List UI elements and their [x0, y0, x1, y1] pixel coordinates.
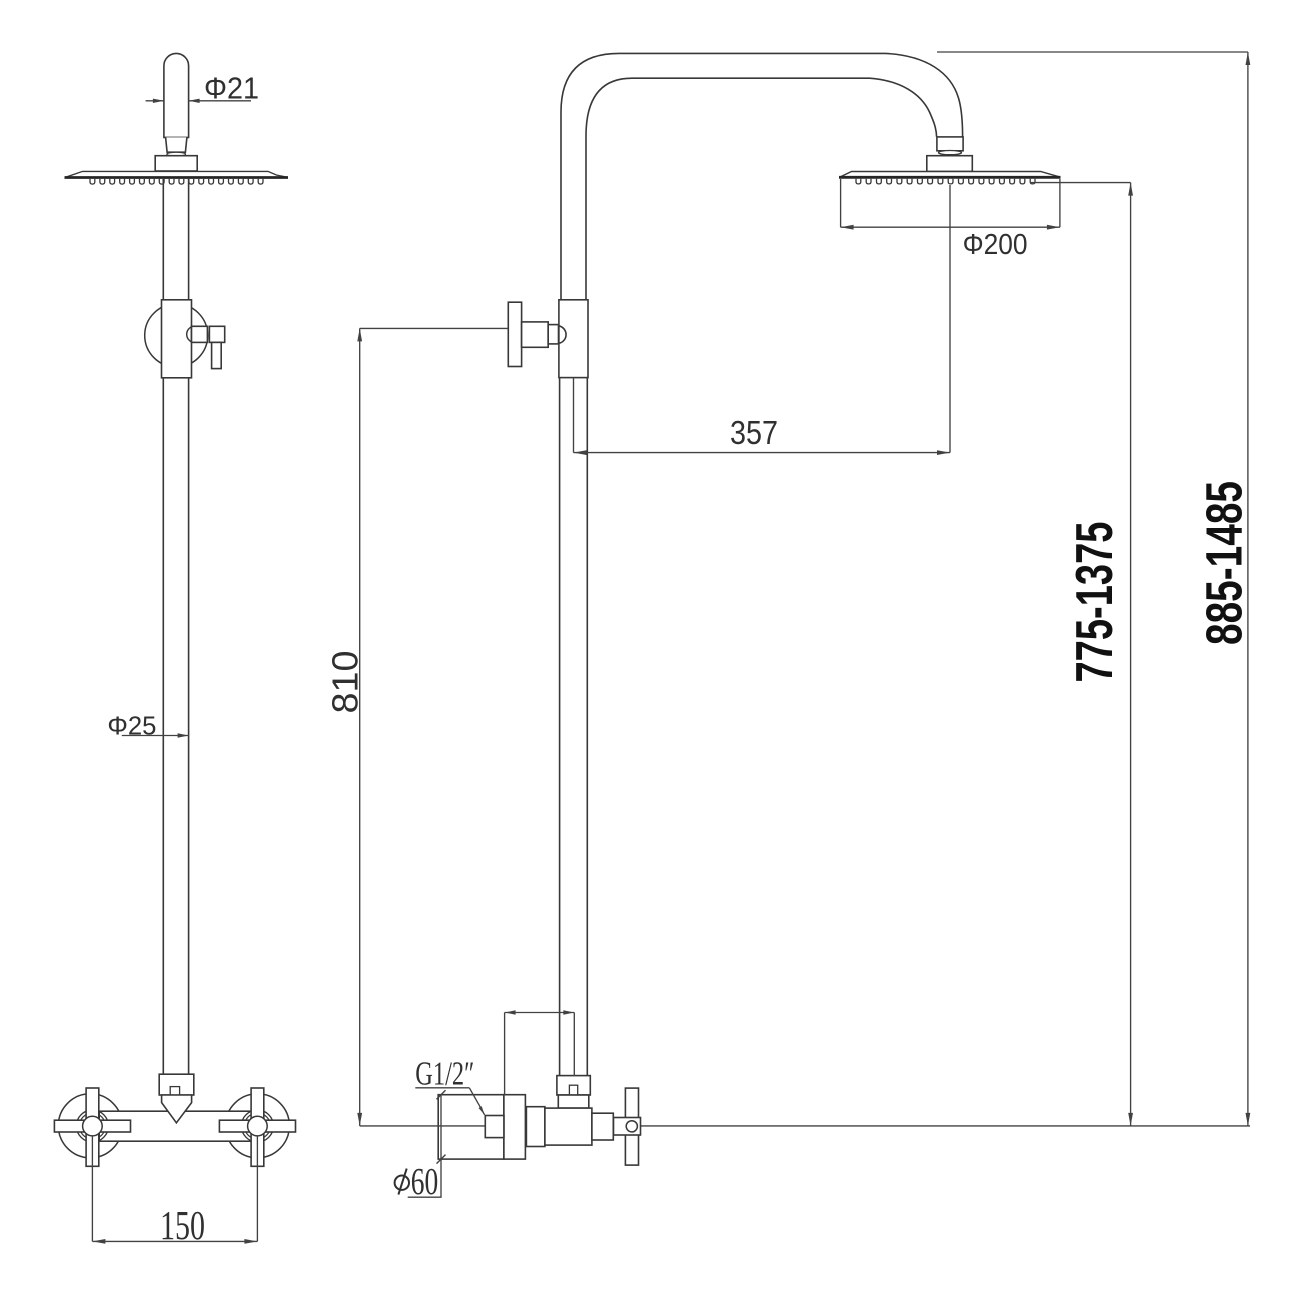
- svg-text:Φ21: Φ21: [204, 71, 259, 106]
- svg-text:150: 150: [160, 1202, 205, 1248]
- svg-text:G1/2″: G1/2″: [415, 1055, 474, 1092]
- svg-text:Φ200: Φ200: [963, 229, 1028, 261]
- svg-text:357: 357: [730, 414, 778, 451]
- svg-text:775-1375: 775-1375: [1066, 522, 1124, 683]
- svg-text:885-1485: 885-1485: [1196, 481, 1253, 645]
- svg-text:810: 810: [325, 651, 366, 714]
